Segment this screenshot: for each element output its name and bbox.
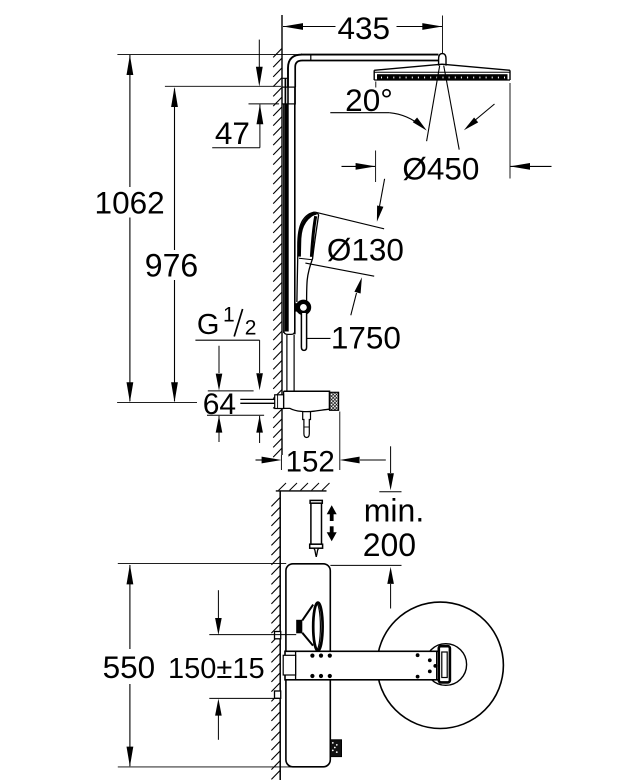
svg-text:Ø130: Ø130 bbox=[327, 232, 404, 268]
svg-text:min.: min. bbox=[364, 493, 424, 529]
svg-text:Ø450: Ø450 bbox=[402, 150, 479, 186]
svg-text:1: 1 bbox=[223, 304, 235, 327]
svg-text:976: 976 bbox=[145, 247, 198, 283]
svg-text:2: 2 bbox=[245, 317, 257, 340]
svg-text:47: 47 bbox=[215, 115, 250, 151]
svg-text:G: G bbox=[197, 309, 220, 341]
svg-text:200: 200 bbox=[363, 527, 416, 563]
svg-text:64: 64 bbox=[203, 388, 236, 421]
svg-text:150±15: 150±15 bbox=[168, 653, 265, 685]
svg-text:1062: 1062 bbox=[95, 185, 165, 221]
svg-text:550: 550 bbox=[103, 649, 156, 685]
svg-text:1750: 1750 bbox=[331, 319, 401, 355]
svg-text:152: 152 bbox=[286, 446, 335, 479]
svg-text:435: 435 bbox=[338, 10, 391, 46]
